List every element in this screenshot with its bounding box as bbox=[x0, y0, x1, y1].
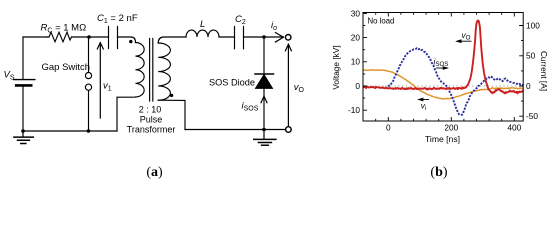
polarity dot primary bbox=[129, 40, 132, 43]
svg-text:Voltage [kV]: Voltage [kV] bbox=[331, 45, 341, 89]
svg-text:Gap Switch: Gap Switch bbox=[42, 62, 91, 73]
wire: left bottom rail bbox=[23, 130, 117, 132]
ground G1 bbox=[22, 131, 24, 136]
wire: diode to bottom rail bbox=[263, 88, 265, 129]
svg-text:400: 400 bbox=[507, 122, 521, 132]
svg-text:-10: -10 bbox=[348, 105, 360, 115]
svg-text:(b): (b) bbox=[430, 165, 447, 180]
wire: resistor to node A bbox=[72, 36, 90, 38]
svg-text:50: 50 bbox=[526, 51, 536, 61]
probe arrow v1 bbox=[97, 43, 103, 118]
svg-text:RC = 1 MΩ: RC = 1 MΩ bbox=[41, 23, 87, 35]
SOS diode D1 bbox=[255, 73, 274, 75]
svg-text:0: 0 bbox=[526, 81, 531, 91]
wire: secondary bottom to right rail bbox=[158, 100, 185, 129]
svg-text:Pulse: Pulse bbox=[140, 115, 163, 125]
svg-text:100: 100 bbox=[526, 20, 540, 30]
svg-text:C1 = 2 nF: C1 = 2 nF bbox=[97, 13, 138, 25]
transformer core bbox=[150, 39, 153, 102]
wire: primary bottom down bbox=[117, 97, 136, 131]
svg-text:Current [A]: Current [A] bbox=[539, 51, 549, 91]
wire: node B down to diode bbox=[263, 37, 265, 74]
svg-text:Time [ns]: Time [ns] bbox=[425, 134, 460, 144]
svg-text:0: 0 bbox=[386, 122, 391, 132]
current arrow io bbox=[275, 33, 283, 43]
curve vi (orange) bbox=[363, 70, 523, 99]
junction dot battery-rail bbox=[21, 129, 25, 133]
wire: right bottom rail bbox=[185, 129, 285, 131]
wire: C2 to output node B bbox=[244, 36, 284, 38]
svg-text:2 : 10: 2 : 10 bbox=[139, 105, 162, 115]
battery VS bbox=[14, 79, 35, 81]
wire: node A to C1 bbox=[89, 36, 109, 38]
chart zero dashed line bbox=[363, 85, 523, 87]
wire: top rail left segment to resistor bbox=[23, 36, 47, 38]
gap switch SW bbox=[88, 37, 90, 72]
svg-text:(a): (a) bbox=[146, 165, 163, 180]
output terminal bottom bbox=[286, 127, 292, 133]
node B junction dot bbox=[262, 35, 266, 39]
node A junction dot bbox=[87, 35, 91, 39]
output terminal top bbox=[285, 35, 291, 41]
svg-text:30: 30 bbox=[351, 8, 361, 18]
svg-text:0: 0 bbox=[355, 81, 360, 91]
transformer T1 primary winding bbox=[136, 43, 145, 98]
svg-text:Transformer: Transformer bbox=[127, 125, 176, 135]
junction dot diode-rail bbox=[262, 128, 266, 132]
curve iSOS (blue dashed) bbox=[388, 48, 523, 115]
capacitor C2 bbox=[235, 27, 244, 49]
wire: battery negative down to ground rail bbox=[22, 87, 24, 132]
inductor L bbox=[186, 30, 219, 37]
resistor RC bbox=[47, 32, 72, 42]
polarity dot secondary bbox=[170, 94, 173, 97]
wire: L to C2 bbox=[219, 36, 235, 38]
current arrow iSOS bbox=[261, 96, 267, 102]
svg-text:SOS Diode: SOS Diode bbox=[209, 78, 255, 88]
svg-text:L: L bbox=[200, 19, 205, 30]
svg-text:No load: No load bbox=[368, 16, 395, 25]
svg-text:10: 10 bbox=[351, 57, 361, 67]
ground G2 bbox=[263, 130, 265, 140]
svg-text:-50: -50 bbox=[526, 111, 538, 121]
junction dot switch-rail bbox=[87, 129, 91, 133]
chart frame bbox=[363, 13, 523, 122]
chart axis ticks bbox=[363, 13, 523, 122]
probe arrow vo bbox=[285, 44, 291, 126]
wire: battery positive to top rail bbox=[22, 37, 24, 79]
svg-text:200: 200 bbox=[444, 122, 458, 132]
svg-text:20: 20 bbox=[351, 33, 361, 43]
curve vO (red) bbox=[363, 21, 524, 94]
transformer T1 secondary winding bbox=[158, 43, 170, 100]
capacitor C1 bbox=[109, 27, 118, 49]
wire: C1 to transformer primary top bbox=[118, 37, 136, 43]
wire: secondary top to L bbox=[158, 37, 186, 43]
